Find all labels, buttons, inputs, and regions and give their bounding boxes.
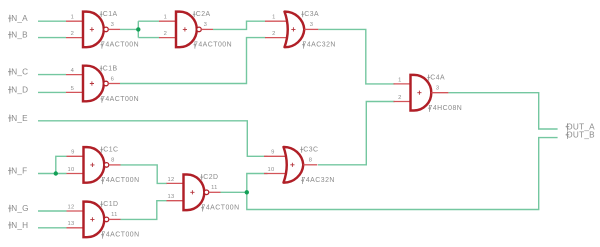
svg-text:3: 3 — [111, 22, 115, 28]
svg-text:2: 2 — [272, 31, 276, 37]
NAND gate IC1A (74ACT00N) — [66, 11, 139, 49]
svg-text:IN_A: IN_A — [9, 14, 28, 23]
IC1D body — [84, 202, 105, 238]
IC2A body — [176, 12, 197, 48]
junction node IC1A.out — [136, 27, 140, 31]
svg-text:3: 3 — [310, 22, 314, 28]
IC1C input pin 9 stub — [67, 155, 85, 157]
IC4A output pin 3 stub — [431, 92, 448, 94]
svg-text:2: 2 — [164, 31, 168, 37]
junction node IN_F — [54, 171, 58, 175]
IC1D name label — [100, 202, 103, 208]
svg-text:74ACT00N: 74ACT00N — [101, 96, 139, 103]
wire net IN_G — [38, 210, 67, 212]
svg-text:13: 13 — [168, 194, 175, 200]
IC3C value label 74AC32N — [301, 177, 304, 184]
svg-text:11: 11 — [211, 185, 218, 191]
IC1C output pin 8 stub — [109, 164, 121, 166]
AND gate IC4A (74HC08N) — [394, 75, 463, 113]
svg-text:OUT_B: OUT_B — [566, 131, 595, 140]
svg-text:74AC32N: 74AC32N — [302, 177, 335, 184]
IC1B origin cross — [90, 81, 94, 85]
IC1C output bubble — [104, 163, 109, 168]
NAND gate IC1B (74ACT00N) — [66, 65, 139, 103]
port label IN_D — [8, 85, 28, 94]
IC3C name label — [300, 147, 303, 153]
svg-text:6: 6 — [111, 76, 115, 82]
port label IN_A — [8, 14, 28, 23]
IC3A output pin 3 stub — [304, 28, 318, 30]
IC3C body — [284, 147, 304, 183]
IC2A output pin 3 stub — [201, 28, 213, 30]
svg-text:13: 13 — [68, 221, 75, 227]
IC1D value label 74ACT00N — [101, 232, 104, 239]
IC1A input pin 1 stub — [66, 20, 84, 22]
svg-text:2: 2 — [398, 95, 402, 101]
svg-text:IC1C: IC1C — [101, 147, 119, 154]
IC3A input pin 1 stub — [265, 20, 289, 22]
IC1C input pin 10 stub — [67, 173, 85, 175]
wire net IN_A — [38, 20, 66, 22]
OR gate IC3A (74AC32N) — [265, 11, 336, 49]
svg-text:11: 11 — [111, 212, 118, 218]
svg-text:1: 1 — [71, 15, 75, 21]
svg-text:IN_G: IN_G — [9, 204, 29, 213]
svg-text:74ACT00N: 74ACT00N — [102, 177, 140, 184]
IC1B body — [83, 66, 104, 102]
wire net IN_F branch to pin 9 — [56, 156, 67, 173]
wire to IC2A pin 1 — [138, 20, 159, 22]
svg-text:74ACT00N: 74ACT00N — [194, 42, 232, 49]
IC2D input pin 13 stub — [167, 200, 185, 202]
svg-text:IC1B: IC1B — [100, 65, 117, 72]
IC1C name label — [100, 147, 103, 153]
svg-text:1: 1 — [272, 15, 276, 21]
IC1B input pin 4 stub — [66, 74, 84, 76]
IC1A name label — [100, 12, 103, 17]
NAND gate IC2A (74ACT00N) — [159, 11, 232, 49]
IC1B name label — [100, 66, 103, 72]
IC2D body — [184, 175, 205, 211]
IC1A value label 74ACT00N — [101, 42, 104, 49]
svg-text:74AC32N: 74AC32N — [303, 42, 336, 49]
svg-text:IN_D: IN_D — [9, 85, 29, 94]
IC4A name label — [427, 75, 430, 81]
IC1D output pin 11 stub — [109, 218, 121, 220]
svg-text:3: 3 — [436, 86, 440, 92]
svg-text:8: 8 — [309, 158, 313, 164]
IC4A input pin 1 stub — [394, 83, 412, 85]
IC3C output pin 8 stub — [303, 164, 317, 166]
svg-text:1: 1 — [398, 77, 402, 83]
IC1A origin cross — [90, 27, 94, 31]
port label IN_H — [8, 221, 28, 230]
svg-text:10: 10 — [68, 167, 75, 173]
IC2A input pin 1 stub — [159, 20, 177, 22]
svg-text:IC3C: IC3C — [301, 147, 319, 154]
IC3C origin cross — [290, 163, 294, 167]
IC1A input pin 2 stub — [66, 37, 84, 39]
junction node IC2D.out — [245, 190, 249, 194]
port label IN_C — [8, 68, 28, 77]
IC4A input pin 2 stub — [394, 101, 412, 103]
wire net OUT_A — [448, 93, 557, 129]
svg-text:IC4A: IC4A — [428, 75, 445, 82]
wire net IC2A.out — [213, 21, 266, 29]
IC2D output pin 11 stub — [209, 191, 221, 193]
IC1B output bubble — [104, 81, 109, 86]
wire net IN_C — [38, 74, 66, 76]
IC3A body — [285, 12, 305, 48]
svg-text:8: 8 — [111, 158, 115, 164]
IC1D origin cross — [90, 217, 94, 221]
port label IN_E — [8, 114, 28, 123]
svg-text:IN_B: IN_B — [9, 31, 28, 40]
wire net IN_B — [38, 37, 66, 39]
IC2A name label — [193, 12, 196, 17]
IC2A value label 74ACT00N — [194, 42, 197, 49]
svg-text:IC2D: IC2D — [201, 174, 219, 181]
svg-text:74ACT00N: 74ACT00N — [102, 232, 140, 239]
svg-text:2: 2 — [71, 31, 75, 37]
svg-text:4: 4 — [71, 68, 75, 74]
IC2A input pin 2 stub — [159, 37, 177, 39]
svg-text:74ACT00N: 74ACT00N — [202, 205, 240, 212]
port label IN_G — [8, 204, 29, 213]
svg-text:10: 10 — [268, 167, 275, 173]
port label OUT_A — [566, 123, 596, 132]
IC1D output bubble — [104, 217, 109, 222]
IC2D value label 74ACT00N — [201, 205, 204, 212]
wire net IN_E — [38, 121, 268, 157]
IC1A body — [83, 12, 104, 48]
wire net IC3A.out — [318, 29, 394, 84]
wire to IC2A pin 2 — [138, 37, 159, 39]
svg-text:12: 12 — [68, 204, 75, 210]
wire net IN_H — [38, 227, 67, 229]
svg-text:12: 12 — [168, 177, 175, 183]
wire net IC1A.out — [120, 28, 138, 30]
IC2D output bubble — [204, 190, 209, 195]
IC1A output pin 3 stub — [108, 28, 120, 30]
svg-text:IC1D: IC1D — [101, 201, 119, 208]
IC1D input pin 12 stub — [67, 210, 85, 212]
IC1B value label 74ACT00N — [101, 96, 104, 103]
svg-text:IC1A: IC1A — [100, 11, 117, 18]
svg-text:IN_F: IN_F — [9, 167, 28, 176]
wire net IN_D — [38, 91, 66, 93]
IC2A output bubble — [197, 27, 202, 32]
IC2D origin cross — [190, 190, 194, 194]
NAND gate IC1C (74ACT00N) — [67, 147, 140, 185]
OR gate IC3C (74AC32N) — [264, 147, 335, 185]
svg-text:74HC08N: 74HC08N — [429, 105, 463, 112]
wire IC2D.out up to IC3C pin 10 — [247, 174, 268, 193]
wire net IN_F horizontal — [38, 173, 67, 175]
IC3A input pin 2 stub — [265, 37, 289, 39]
svg-text:IC3A: IC3A — [302, 11, 319, 18]
IC1B input pin 5 stub — [66, 91, 84, 93]
svg-text:5: 5 — [71, 86, 75, 92]
IC3A name label — [301, 12, 304, 17]
IC1A output bubble — [104, 27, 109, 32]
svg-text:IC2A: IC2A — [193, 11, 210, 18]
IC2D name label — [200, 175, 203, 181]
wire net IC1A.out vertical — [137, 21, 139, 37]
IC1C value label 74ACT00N — [101, 177, 104, 184]
wire net IC2D.out — [221, 191, 247, 193]
svg-text:1: 1 — [164, 15, 168, 21]
port label OUT_B — [566, 131, 596, 140]
svg-text:3: 3 — [204, 22, 208, 28]
wire net IC1C.out — [120, 165, 167, 184]
IC3C input pin 9 stub — [264, 155, 288, 157]
NAND gate IC1D (74ACT00N) — [67, 201, 140, 239]
svg-text:IN_C: IN_C — [9, 68, 29, 77]
svg-text:IN_H: IN_H — [9, 221, 29, 230]
wire IC2D.out down to OUT_B — [247, 138, 558, 210]
IC2D input pin 12 stub — [167, 182, 185, 184]
IC3C input pin 10 stub — [264, 173, 288, 175]
svg-text:9: 9 — [271, 150, 275, 156]
IC4A body — [411, 75, 432, 111]
IC4A origin cross — [417, 91, 421, 95]
IC3A value label 74AC32N — [302, 42, 305, 49]
IC1C body — [84, 147, 105, 183]
IC1C origin cross — [90, 163, 94, 167]
port label IN_F — [8, 167, 27, 176]
IC3A origin cross — [291, 27, 295, 31]
IC1B output pin 6 stub — [108, 83, 120, 85]
NAND gate IC2D (74ACT00N) — [167, 174, 240, 212]
wire net IC1D.out — [120, 201, 167, 220]
wire net IC1B.out — [120, 38, 266, 84]
IC2A origin cross — [183, 27, 187, 31]
svg-text:9: 9 — [71, 150, 75, 156]
wire net IC3C.out — [318, 102, 395, 165]
port label IN_B — [8, 31, 28, 40]
IC1D input pin 13 stub — [67, 227, 85, 229]
svg-text:IN_E: IN_E — [9, 114, 28, 123]
IC4A value label 74HC08N — [428, 105, 431, 112]
svg-text:74ACT00N: 74ACT00N — [101, 42, 139, 49]
